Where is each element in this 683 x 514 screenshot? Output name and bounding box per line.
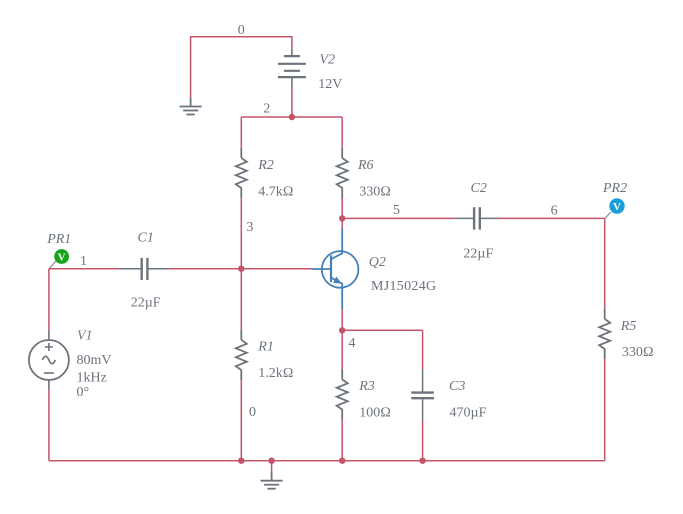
svg-text:V: V — [58, 252, 66, 264]
svg-text:470µF: 470µF — [450, 406, 487, 421]
wire C1 to node 3 — [169, 268, 242, 270]
svg-text:3: 3 — [246, 220, 253, 235]
junction R3 bottom — [339, 458, 345, 464]
svg-text:PR1: PR1 — [46, 232, 71, 247]
wire R6 to node 5 — [341, 198, 343, 218]
wire C3 branch down — [422, 330, 424, 369]
wire node6 down to R5 — [604, 218, 606, 309]
svg-text:R6: R6 — [357, 158, 374, 173]
svg-text:5: 5 — [393, 203, 400, 218]
transistor Q2 — [311, 228, 358, 309]
svg-text:2: 2 — [263, 101, 270, 116]
wire V1 bottom — [48, 390, 50, 461]
source V1 — [29, 330, 69, 390]
junction C3 bottom — [419, 458, 425, 464]
svg-text:100Ω: 100Ω — [359, 406, 391, 421]
junction node 3 — [238, 266, 244, 272]
junction node 4 — [339, 327, 345, 333]
resistor R5 — [599, 309, 610, 359]
svg-text:4.7kΩ: 4.7kΩ — [258, 185, 293, 200]
wire node 3 to base — [241, 268, 311, 270]
svg-text:V2: V2 — [320, 53, 336, 68]
svg-text:330Ω: 330Ω — [359, 185, 391, 200]
wire R3 to bottom net — [341, 420, 343, 461]
resistor R6 — [337, 148, 348, 198]
svg-text:1: 1 — [80, 254, 87, 269]
capacitor C1 — [119, 258, 168, 280]
svg-text:1kHz: 1kHz — [77, 371, 107, 386]
wire V1 top lead to node 1 — [48, 269, 50, 330]
capacitor C3 — [411, 370, 434, 421]
wire node 4 horizontal to C3 — [342, 329, 422, 331]
wire emitter to node 4 — [341, 309, 343, 330]
wire R1 to bottom net — [240, 380, 242, 461]
svg-text:C1: C1 — [138, 231, 154, 246]
capacitor C2 — [455, 207, 499, 229]
svg-text:0°: 0° — [77, 385, 90, 400]
wire R5 to bottom net — [604, 359, 606, 461]
svg-text:6: 6 — [551, 204, 558, 219]
svg-text:V1: V1 — [77, 329, 93, 344]
svg-text:R2: R2 — [257, 158, 274, 173]
wire C3 to bottom net — [422, 420, 424, 461]
wire node5 dot to collector blue — [341, 218, 343, 228]
svg-text:12V: 12V — [318, 77, 342, 92]
probe PR2 — [605, 198, 625, 218]
svg-text:0: 0 — [238, 23, 245, 38]
resistor R2 — [236, 148, 247, 198]
svg-text:22µF: 22µF — [131, 296, 161, 311]
junction R1 bottom — [238, 458, 244, 464]
svg-text:330Ω: 330Ω — [622, 345, 654, 360]
svg-text:1.2kΩ: 1.2kΩ — [258, 366, 293, 381]
svg-text:80mV: 80mV — [77, 353, 112, 368]
wire node 4 down to R3 — [341, 330, 343, 369]
battery V2 — [278, 49, 306, 87]
svg-text:0: 0 — [249, 405, 256, 420]
svg-text:R3: R3 — [358, 379, 375, 394]
wire net 0 top (ground to V2 plus label) — [191, 37, 292, 98]
wire bottom net 0 — [49, 460, 605, 462]
svg-text:C3: C3 — [449, 379, 465, 394]
junction node 5 — [339, 215, 345, 221]
ground symbol bottom — [261, 472, 283, 489]
resistor R1 — [236, 330, 247, 380]
svg-text:PR2: PR2 — [602, 181, 627, 196]
svg-text:C2: C2 — [471, 181, 487, 196]
svg-text:V: V — [613, 201, 621, 213]
resistor R3 — [337, 370, 348, 420]
svg-text:MJ15024G: MJ15024G — [371, 279, 436, 294]
wire node2 to R2 — [240, 117, 242, 148]
wire V2 to node 2 — [291, 87, 293, 117]
svg-text:Q2: Q2 — [369, 255, 386, 270]
svg-text:R5: R5 — [620, 319, 637, 334]
junction ground stub — [268, 458, 274, 464]
wire node 2 horizontal — [241, 116, 342, 118]
ground symbol top-left — [180, 98, 202, 115]
wire node 5 horizontal to C2 — [342, 217, 454, 219]
wire node 3 down to R1 — [240, 269, 242, 330]
wire C2 to node 6 corner — [498, 217, 605, 219]
svg-text:R1: R1 — [257, 340, 274, 355]
probe PR1 — [49, 249, 69, 268]
wire node1 from V1 corner to C1 — [49, 268, 120, 270]
wire R2 to node 3 — [240, 198, 242, 269]
svg-text:22µF: 22µF — [463, 247, 493, 262]
wire node2 to R6 — [341, 117, 343, 148]
svg-text:4: 4 — [349, 336, 356, 351]
junction node 2 — [289, 114, 295, 120]
wire ground stub — [271, 461, 273, 472]
